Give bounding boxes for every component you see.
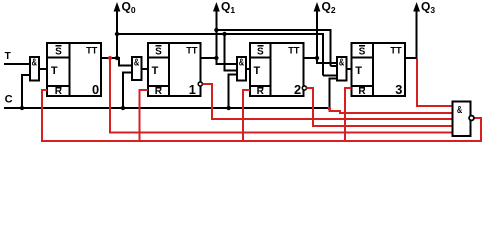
- node Q1 wire up: [215, 10, 217, 58]
- red wire reset net from nand output to R inputs: [42, 90, 481, 141]
- feedback wire Q1 line B: [216, 30, 330, 66]
- arrow Q1: [213, 0, 235, 15]
- flip-flop DD1: [47, 43, 101, 97]
- input C wire: [4, 107, 329, 109]
- flip-flop DD2: [148, 43, 201, 97]
- svg-text:TT: TT: [186, 46, 198, 56]
- svg-text:&: &: [339, 57, 344, 68]
- nand gate U5: [452, 102, 470, 136]
- junction dot C to U1: [20, 106, 24, 110]
- junction dot Q1 feedback line: [214, 28, 218, 32]
- red wire flip-flop DD4 R input: [345, 88, 352, 141]
- and U1 output wire: [39, 68, 47, 70]
- and U2 output wire: [141, 68, 148, 70]
- flip-flop DD3: [250, 43, 304, 97]
- red wire flip-flop DD3 R input: [243, 90, 250, 141]
- and U3 C input wire: [229, 74, 237, 108]
- junction dot C to U3: [226, 106, 230, 110]
- junction red dot C end: [328, 107, 332, 111]
- arrow Q3: [413, 0, 435, 15]
- and U3 output wire: [246, 68, 250, 70]
- svg-text:S: S: [55, 46, 62, 57]
- red wire Q3 tap to nand: [417, 59, 452, 107]
- red wire flip-flop DD2 R input: [139, 90, 148, 141]
- and U2 C input wire: [123, 72, 132, 108]
- svg-text:3: 3: [395, 82, 402, 97]
- flip-flop DD2 inverted output bubble: [198, 82, 202, 86]
- junction dot Q1 output: [214, 56, 218, 60]
- junction dot C to U2: [121, 106, 125, 110]
- svg-text:&: &: [134, 57, 139, 68]
- and U4 input wire from Q1 line: [331, 65, 337, 67]
- svg-text:C: C: [5, 94, 13, 106]
- svg-text:&: &: [32, 57, 37, 68]
- svg-text:&: &: [457, 105, 462, 116]
- svg-text:T: T: [355, 65, 362, 77]
- svg-text:TT: TT: [390, 46, 402, 56]
- red wire Q0 tap to nand: [110, 58, 452, 133]
- svg-text:T: T: [254, 65, 261, 77]
- and gate U2: [132, 57, 141, 80]
- svg-text:T: T: [5, 51, 11, 62]
- and U3 input wire from Q1: [200, 58, 237, 64]
- and U1 C input wire: [22, 75, 30, 108]
- junction dot Q0 output: [115, 56, 119, 60]
- arrow Q0: [114, 0, 136, 15]
- and U4 output wire: [346, 68, 351, 70]
- and U4 input wire from Q2: [303, 58, 337, 63]
- svg-text:Q2: Q2: [322, 0, 336, 15]
- red wire C tap to nand: [329, 108, 452, 113]
- flip-flop DD3 inverted output bubble: [302, 86, 306, 90]
- svg-text:S: S: [359, 46, 366, 57]
- svg-text:Q0: Q0: [122, 0, 136, 15]
- junction dot Q2 output: [315, 56, 319, 60]
- feedback wire Q0 line A: [117, 34, 323, 76]
- junction dot Q0 feedback line: [115, 32, 119, 36]
- svg-text:2: 2: [294, 82, 301, 97]
- nand gate U5 output bubble: [469, 116, 474, 121]
- node Q2 wire up: [316, 10, 318, 58]
- flip-flop DD4: [351, 43, 405, 97]
- input T wire: [4, 63, 30, 65]
- red wire Q2 tap to nand: [307, 88, 453, 126]
- svg-text:S: S: [155, 46, 162, 57]
- and U4 C input wire: [329, 79, 337, 108]
- and gate U4: [337, 57, 346, 80]
- svg-text:0: 0: [92, 82, 99, 97]
- svg-text:Q3: Q3: [421, 0, 435, 15]
- svg-text:&: &: [239, 57, 244, 68]
- svg-text:1: 1: [189, 82, 196, 97]
- and gate U3: [237, 57, 246, 80]
- and U2 input wire from Q0: [101, 58, 132, 65]
- red wire Q1 tap to nand: [202, 84, 452, 119]
- and U4 input wire from Q0 line: [323, 75, 337, 77]
- arrow Q2: [314, 0, 336, 15]
- flip-flop DD4 output wire Q3: [405, 10, 417, 58]
- junction red dot Q0 tap: [108, 56, 112, 60]
- and gate U1: [30, 57, 39, 81]
- svg-text:S: S: [257, 46, 264, 57]
- svg-text:T: T: [152, 65, 159, 77]
- svg-text:TT: TT: [288, 46, 300, 56]
- svg-text:TT: TT: [86, 46, 98, 56]
- svg-text:T: T: [51, 65, 58, 77]
- svg-text:Q1: Q1: [221, 0, 235, 15]
- junction dot line A to U3: [222, 32, 226, 36]
- node Q0 wire up: [116, 10, 118, 58]
- and U3 input wire from Q0 line: [225, 34, 238, 70]
